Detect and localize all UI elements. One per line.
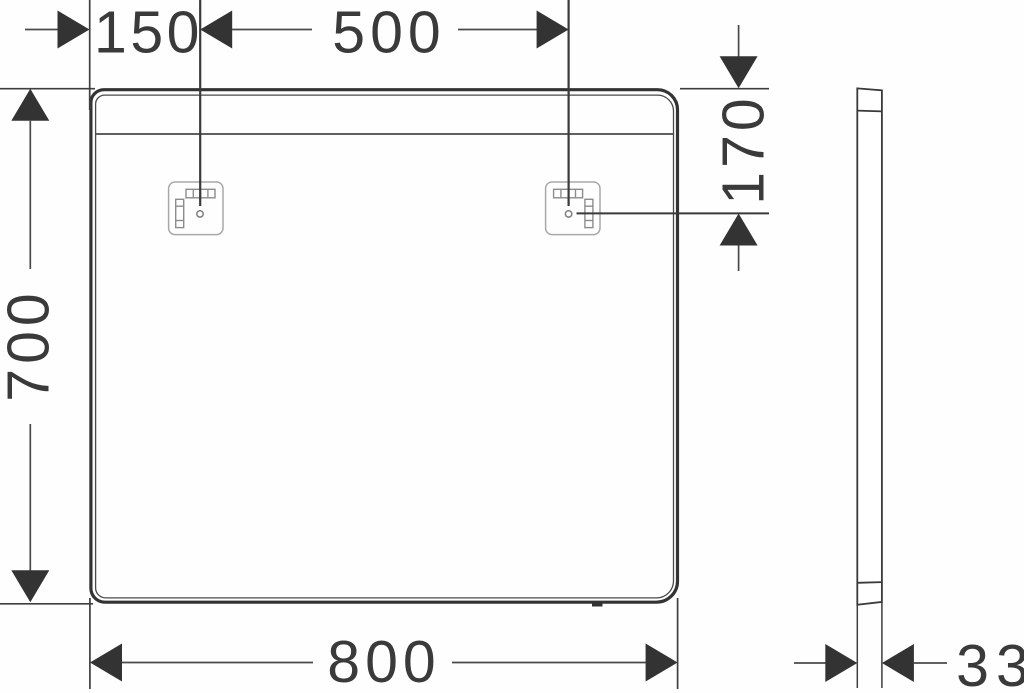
extension below side view left [856, 605, 858, 688]
svg-text:150: 150 [94, 0, 203, 65]
extension below side view right [881, 602, 883, 688]
dim 170 line top [738, 25, 740, 58]
dim 500 arrow right [537, 11, 569, 49]
bracket icon left [169, 182, 223, 235]
dim 170 arrow up [720, 214, 758, 246]
bracket icon right [546, 182, 600, 235]
dim 33 arrow right [825, 644, 857, 682]
svg-text:500: 500 [332, 0, 445, 65]
dim 700 line bottom [29, 424, 31, 571]
dim 33 arrow left [882, 644, 914, 682]
svg-text:33: 33 [956, 633, 1024, 693]
dim 150 arrow right [58, 11, 90, 49]
dim 170 line bottom [738, 246, 740, 272]
dim 800 arrow right [646, 644, 678, 682]
extension line left edge top [89, 0, 91, 110]
side view bottom inner line [857, 581, 882, 584]
svg-text:700: 700 [0, 288, 62, 401]
bottom center tick [592, 603, 603, 607]
extension line bottom left horizontal [0, 603, 93, 605]
extension line bracket right horizontal [577, 212, 770, 214]
side view outline [857, 88, 882, 604]
extension line top left horizontal [0, 88, 95, 90]
extension line top right horizontal [680, 88, 769, 90]
mirror inner contour [96, 95, 674, 598]
dim 500 line right [458, 29, 537, 31]
svg-text:800: 800 [327, 629, 440, 693]
dim 800 arrow left [90, 644, 122, 682]
extension line bracket left [199, 0, 201, 206]
dim 800 line left [122, 662, 313, 664]
dim 700 arrow down [11, 570, 49, 602]
mirror light band line [96, 133, 674, 135]
dim 170 arrow down [720, 56, 758, 88]
dim 800 line right [452, 662, 646, 664]
dim 150 leader line [25, 29, 58, 31]
mirror outer outline [91, 90, 678, 603]
dim 500 line left [232, 29, 312, 31]
dim 500 arrow left [200, 11, 232, 49]
extension line below bottom-left corner [89, 598, 91, 689]
extension line bracket right [567, 0, 569, 206]
dim 700 line top [29, 121, 31, 269]
extension line below bottom-right corner [677, 598, 679, 689]
dim 33 line right [914, 662, 947, 664]
side view top inner line [857, 110, 882, 113]
dim 700 arrow up [11, 89, 49, 121]
svg-text:170: 170 [711, 94, 777, 204]
dim 33 line left [794, 662, 826, 664]
